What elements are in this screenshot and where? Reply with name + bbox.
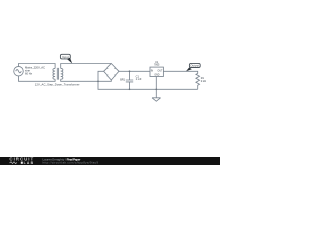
svg-text:60 Hz: 60 Hz [25, 71, 33, 75]
svg-text:BR1: BR1 [120, 79, 125, 82]
svg-text:LAB: LAB [24, 161, 34, 165]
svg-text:Output: Output [191, 64, 200, 68]
svg-text:1 mF: 1 mF [136, 77, 142, 81]
svg-text:GND: GND [154, 74, 159, 76]
svg-text:Input: Input [62, 55, 69, 59]
svg-text:IN: IN [151, 71, 154, 73]
svg-text:http://circuitlab.com/c/kpp8ya: http://circuitlab.com/c/kpp8ya/9iac9 [43, 161, 99, 165]
svg-text:7805: 7805 [154, 63, 160, 66]
svg-text:OUT: OUT [158, 71, 163, 73]
svg-text:12V_AC_Step_Down_Transformer: 12V_AC_Step_Down_Transformer [35, 82, 80, 86]
svg-text:2 kΩ: 2 kΩ [201, 80, 206, 83]
